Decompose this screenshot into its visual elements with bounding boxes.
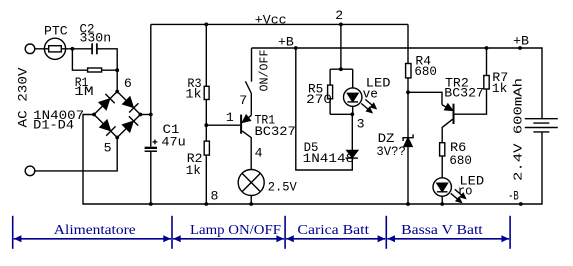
svg-text:7: 7 [239,93,247,108]
svg-text:ON/OFF: ON/OFF [258,50,272,92]
svg-text:6: 6 [124,76,132,91]
svg-text:ro: ro [458,183,473,198]
svg-text:Bassa V Batt: Bassa V Batt [401,223,483,238]
svg-text:1k: 1k [492,81,508,96]
svg-text:2: 2 [335,8,343,23]
svg-text:680: 680 [449,153,472,168]
svg-text:D1-D4: D1-D4 [33,118,74,133]
svg-text:1N4148: 1N4148 [303,151,355,166]
svg-text:Carica Batt: Carica Batt [297,223,369,238]
svg-text:2.5V: 2.5V [268,179,297,194]
svg-text:680: 680 [414,64,437,79]
svg-text:8: 8 [211,188,219,203]
svg-text:BC327: BC327 [444,85,484,100]
svg-text:3: 3 [357,117,365,132]
svg-text:1k: 1k [186,163,201,178]
svg-text:3V??: 3V?? [376,144,406,159]
svg-text:Lamp ON/OFF: Lamp ON/OFF [190,223,281,238]
svg-text:330n: 330n [80,31,112,46]
svg-text:+Vcc: +Vcc [255,13,287,28]
svg-text:1k: 1k [185,86,201,101]
svg-text:+B: +B [513,34,529,49]
svg-text:4: 4 [255,145,263,160]
svg-text:1M: 1M [74,84,94,99]
svg-text:270: 270 [306,92,332,107]
svg-text:2.4V 600mAh: 2.4V 600mAh [512,78,526,181]
svg-text:ve: ve [363,87,378,102]
svg-text:1: 1 [226,110,234,125]
svg-text:AC 230V: AC 230V [16,67,31,127]
svg-text:-B: -B [508,189,519,204]
svg-text:Alimentatore: Alimentatore [54,223,136,238]
svg-text:BC327: BC327 [255,124,296,139]
svg-text:5: 5 [104,141,112,156]
svg-text:47u: 47u [161,134,185,149]
svg-text:PTC: PTC [44,24,68,39]
svg-text:+B: +B [278,35,294,50]
